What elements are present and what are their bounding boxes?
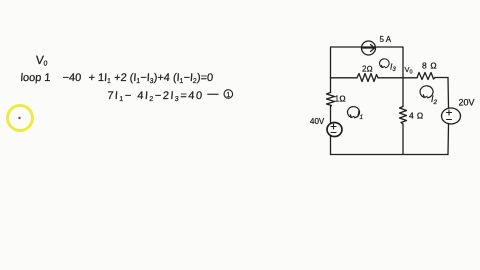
svg-text:1: 1: [226, 90, 230, 99]
wire: top 5A branch: [331, 47, 404, 78]
20V plus sign: [447, 110, 452, 115]
wire: bottom rail: [331, 154, 449, 156]
mesh arrow I2: [420, 86, 433, 98]
resistor 8ohm zigzag: [417, 73, 435, 80]
circled equation number 1: [224, 90, 233, 99]
mesh arrow I3: [380, 59, 390, 68]
40V plus sign: [331, 124, 336, 129]
voltage source 40V circle: [327, 123, 342, 137]
equation line 1: loop 1 -40 + 1I1 +2(I1-I3)+4(I1-I2)=0: [20, 72, 213, 85]
svg-text:5 A: 5 A: [380, 35, 392, 44]
wire: rail V0 to 8ohm: [403, 77, 417, 79]
resistor 2ohm zigzag: [357, 74, 378, 82]
mesh arrow I1: [347, 107, 359, 118]
wire: main middle rail left segment: [331, 77, 358, 79]
current source 5A circle: [362, 41, 376, 55]
wire: middle branch lower: [402, 124, 404, 155]
wire: right rail lower: [447, 124, 450, 155]
wire: left rail upper: [330, 78, 332, 93]
wire: right rail upper: [447, 78, 450, 109]
wire: middle branch upper: [402, 78, 404, 107]
svg-text:—: —: [207, 88, 219, 100]
svg-text:4Ω: 4Ω: [409, 111, 426, 121]
svg-text:8Ω: 8Ω: [422, 60, 440, 70]
40V minus sign: [331, 132, 336, 134]
voltage source 20V circle: [442, 108, 461, 124]
svg-text:40V: 40V: [310, 117, 325, 126]
equation line 2: 7I1-4I2-2I3=40 - (1): [107, 88, 219, 103]
wire: rail between 2ohm and V0 node: [378, 77, 403, 79]
resistor 4ohm zigzag: [400, 107, 407, 125]
svg-text:2Ω: 2Ω: [362, 65, 373, 74]
svg-text:loop 1: loop 1: [20, 72, 51, 84]
wire: left rail lower: [330, 137, 332, 155]
svg-text:−40: −40: [62, 72, 81, 84]
cursor dot inside yellow circle: [18, 117, 20, 119]
yellow highlighter circle: [8, 106, 33, 131]
svg-text:1Ω: 1Ω: [335, 94, 347, 104]
5A arrow inside: [363, 45, 375, 52]
node V0 label top-left: [35, 53, 48, 67]
wire: left rail between 1ohm and 40V source: [330, 107, 332, 123]
wire: rail 8ohm to right corner: [435, 77, 448, 79]
20V minus sign: [447, 119, 452, 121]
svg-text:20V: 20V: [459, 98, 475, 108]
resistor 1ohm zigzag: [327, 93, 335, 107]
